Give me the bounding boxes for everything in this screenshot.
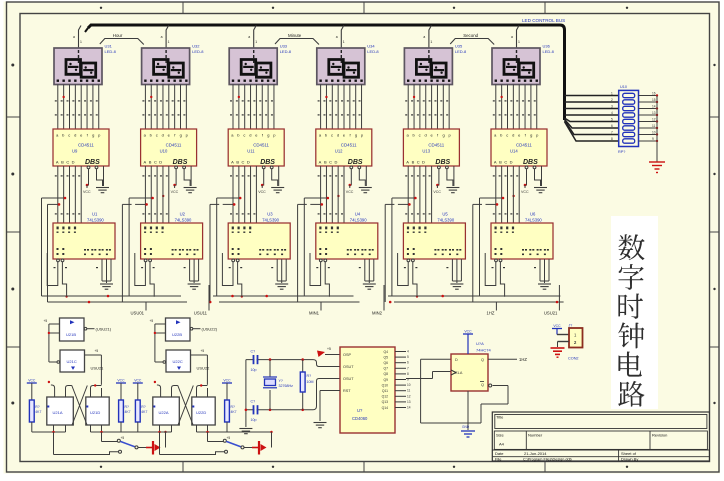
svg-text:g: g [355, 133, 357, 138]
svg-text:(USU22): (USU22) [202, 326, 218, 331]
svg-text:U31: U31 [105, 44, 113, 49]
svg-text:U34: U34 [367, 44, 375, 49]
svg-text:c: c [331, 133, 333, 138]
svg-text:LED-8: LED-8 [192, 49, 204, 54]
svg-text:6: 6 [611, 124, 613, 128]
svg-text:LED-8: LED-8 [280, 49, 292, 54]
svg-text:4: 4 [611, 111, 613, 115]
svg-text:U14: U14 [510, 149, 518, 154]
svg-text:Q10: Q10 [382, 383, 389, 387]
svg-text:Q6: Q6 [383, 361, 388, 365]
svg-text:4: 4 [407, 350, 409, 354]
svg-text:Size: Size [496, 433, 505, 438]
svg-text:D: D [422, 160, 425, 165]
svg-text:Q5: Q5 [383, 355, 388, 359]
svg-text:Q7: Q7 [383, 367, 388, 371]
svg-text:C?: C? [251, 400, 256, 404]
svg-text:U22A: U22A [159, 410, 169, 415]
svg-text:7: 7 [407, 366, 409, 370]
svg-text:C: C [66, 160, 69, 165]
svg-text:d: d [337, 133, 339, 138]
svg-text:OSP: OSP [343, 353, 351, 357]
svg-text:Q14: Q14 [382, 406, 389, 410]
svg-text:Revision: Revision [652, 433, 667, 438]
svg-text:CD4511: CD4511 [428, 143, 444, 148]
svg-text:A: A [319, 160, 322, 165]
svg-text:U21D: U21D [90, 410, 100, 415]
svg-text:Number: Number [528, 433, 543, 438]
svg-text:USU21: USU21 [544, 311, 558, 316]
svg-text:B: B [412, 160, 415, 165]
svg-text:B: B [324, 160, 327, 165]
svg-text:8: 8 [611, 137, 613, 141]
svg-text:DBS: DBS [85, 159, 100, 166]
svg-text:g: g [530, 133, 532, 138]
svg-text:U3: U3 [267, 212, 273, 217]
svg-text:d: d [74, 133, 76, 138]
svg-text:B: B [61, 160, 64, 165]
svg-text:14: 14 [407, 406, 411, 410]
svg-text:CD4511: CD4511 [78, 143, 94, 148]
svg-text:U33: U33 [280, 44, 288, 49]
svg-text:LED-8: LED-8 [367, 49, 379, 54]
svg-text:Q11: Q11 [382, 389, 388, 393]
svg-text:R?: R? [307, 374, 312, 378]
svg-text:OSUT: OSUT [343, 377, 354, 381]
svg-text:A: A [56, 160, 59, 165]
svg-text:U36: U36 [543, 44, 551, 49]
svg-text:U21C: U21C [67, 359, 77, 364]
svg-text:U22D: U22D [196, 410, 206, 415]
svg-text:U32: U32 [192, 44, 200, 49]
svg-text:Drawn By: Drawn By [621, 457, 638, 462]
svg-text:U10: U10 [620, 85, 627, 89]
svg-text:VCC: VCC [346, 190, 354, 194]
svg-text:11: 11 [407, 389, 411, 393]
svg-text:Q12: Q12 [382, 395, 389, 399]
svg-text:J?: J? [569, 324, 573, 328]
svg-text:1HZ: 1HZ [486, 311, 494, 316]
svg-text:OSUT: OSUT [343, 365, 354, 369]
svg-text:VCC: VCC [433, 190, 441, 194]
svg-text:74LS390: 74LS390 [350, 218, 367, 223]
svg-text:+5: +5 [150, 319, 154, 323]
svg-text:+5: +5 [44, 319, 48, 323]
svg-text:LED-8: LED-8 [455, 49, 467, 54]
svg-text:R?: R? [231, 405, 235, 409]
svg-text:3: 3 [611, 105, 613, 109]
svg-text:74LS390: 74LS390 [175, 218, 192, 223]
svg-text:D: D [334, 160, 337, 165]
svg-text:D: D [455, 358, 458, 362]
svg-text:Q8: Q8 [383, 372, 388, 376]
svg-text:4K7: 4K7 [35, 410, 41, 414]
svg-text:14: 14 [652, 105, 656, 109]
svg-text:U21A: U21A [53, 410, 63, 415]
svg-text:Second: Second [463, 33, 478, 38]
svg-text:MIN2: MIN2 [372, 311, 383, 316]
svg-text:+5: +5 [327, 347, 331, 351]
svg-text:CD4511: CD4511 [341, 143, 357, 148]
svg-text:7: 7 [611, 131, 613, 135]
svg-text:+5: +5 [201, 349, 205, 353]
svg-text:A: A [143, 160, 146, 165]
svg-text:g: g [92, 133, 94, 138]
svg-text:LED CONTROL BUS: LED CONTROL BUS [522, 18, 565, 23]
svg-text:+5: +5 [227, 436, 231, 440]
svg-text:(USU21): (USU21) [96, 326, 112, 331]
svg-text:USU11: USU11 [194, 311, 208, 316]
svg-text:C: C [329, 160, 332, 165]
svg-text:CD4511: CD4511 [516, 143, 532, 148]
svg-text:g: g [442, 133, 444, 138]
svg-text:a: a [248, 35, 250, 39]
svg-text:D: D [510, 160, 513, 165]
svg-text:1: 1 [430, 40, 432, 44]
svg-text:1: 1 [611, 92, 613, 96]
svg-text:1: 1 [343, 40, 345, 44]
svg-text:D: D [247, 160, 250, 165]
svg-text:4K7: 4K7 [125, 410, 131, 414]
svg-text:CD4511: CD4511 [166, 143, 182, 148]
svg-text:U22B: U22B [172, 332, 182, 337]
svg-text:d: d [512, 133, 514, 138]
svg-text:d: d [162, 133, 164, 138]
svg-text:Hour: Hour [113, 33, 123, 38]
svg-text:U5: U5 [442, 212, 448, 217]
svg-text:12: 12 [407, 394, 411, 398]
svg-text:4K7: 4K7 [141, 410, 147, 414]
svg-text:32768Hz: 32768Hz [279, 384, 294, 388]
svg-text:USU21: USU21 [91, 366, 105, 371]
svg-text:Title: Title [496, 415, 504, 420]
svg-text:Q13: Q13 [382, 400, 389, 404]
svg-text:VCC: VCC [258, 190, 266, 194]
svg-text:VCC: VCC [464, 330, 472, 334]
svg-text:C: C [242, 160, 245, 165]
svg-text:USU01: USU01 [131, 311, 145, 316]
svg-text:U11: U11 [247, 149, 255, 154]
svg-text:CON2: CON2 [568, 357, 579, 361]
svg-text:74HC74: 74HC74 [476, 348, 491, 353]
svg-text:CD4511: CD4511 [253, 143, 269, 148]
svg-text:2: 2 [611, 98, 613, 102]
svg-text:74LS390: 74LS390 [262, 218, 279, 223]
svg-text:a: a [73, 35, 75, 39]
svg-text:USU22: USU22 [197, 366, 211, 371]
svg-text:10M: 10M [307, 380, 314, 384]
svg-text:10: 10 [407, 383, 411, 387]
svg-text:13: 13 [407, 400, 411, 404]
svg-text:U?A: U?A [476, 341, 484, 346]
svg-text:1: 1 [255, 40, 257, 44]
svg-text:GND: GND [462, 425, 470, 429]
svg-text:B: B [149, 160, 152, 165]
svg-text:1HZ: 1HZ [519, 357, 527, 362]
svg-text:10: 10 [652, 131, 656, 135]
svg-text:6: 6 [407, 361, 409, 365]
svg-text:9: 9 [652, 137, 654, 141]
svg-text:C:\Program Files\Design.ddb: C:\Program Files\Design.ddb [523, 458, 572, 462]
svg-text:A: A [231, 160, 234, 165]
svg-text:12: 12 [652, 118, 656, 122]
svg-text:DBS: DBS [523, 159, 538, 166]
svg-text:Date: Date [495, 451, 504, 456]
svg-text:a: a [161, 35, 163, 39]
svg-text:13: 13 [652, 111, 656, 115]
svg-text:A: A [494, 160, 497, 165]
svg-text:10p: 10p [251, 418, 257, 422]
svg-text:R?: R? [125, 405, 129, 409]
svg-text:VCC: VCC [171, 190, 179, 194]
svg-text:MIN1: MIN1 [309, 311, 320, 316]
svg-text:c: c [506, 133, 508, 138]
svg-text:VCC: VCC [134, 379, 142, 383]
svg-text:A4: A4 [499, 442, 505, 447]
svg-text:74LS390: 74LS390 [87, 218, 104, 223]
svg-text:Q9: Q9 [383, 378, 388, 382]
svg-text:5: 5 [611, 118, 613, 122]
svg-text:B: B [236, 160, 239, 165]
svg-text:+5: +5 [121, 436, 125, 440]
svg-text:R?: R? [35, 405, 39, 409]
svg-text:8: 8 [407, 372, 409, 376]
svg-text:U2: U2 [180, 212, 186, 217]
svg-text:RP?: RP? [618, 150, 625, 154]
svg-text:DBS: DBS [173, 159, 188, 166]
svg-text:U13: U13 [422, 149, 430, 154]
svg-text:U35: U35 [455, 44, 463, 49]
svg-text:15: 15 [652, 98, 656, 102]
svg-text:U4: U4 [355, 212, 361, 217]
svg-text:21-Jun-2014: 21-Jun-2014 [524, 451, 547, 456]
svg-text:C: C [504, 160, 507, 165]
svg-text:File: File [495, 457, 502, 462]
svg-text:B: B [499, 160, 502, 165]
svg-text:4K7: 4K7 [231, 410, 237, 414]
svg-text:Q: Q [481, 383, 484, 387]
svg-text:a: a [423, 35, 425, 39]
svg-text:Y?: Y? [279, 379, 283, 383]
svg-text:1: 1 [168, 40, 170, 44]
svg-text:Minute: Minute [288, 33, 302, 38]
svg-text:D: D [159, 160, 162, 165]
svg-text:RST: RST [343, 389, 351, 393]
svg-text:c: c [419, 133, 421, 138]
svg-text:C: C [417, 160, 420, 165]
svg-text:Sheet of: Sheet of [621, 451, 637, 456]
svg-text:VCC: VCC [521, 190, 529, 194]
svg-text:a: a [511, 35, 513, 39]
svg-text:VCC: VCC [83, 190, 91, 194]
svg-text:D: D [72, 160, 75, 165]
svg-text:11: 11 [652, 124, 656, 128]
svg-text:VCC: VCC [28, 379, 36, 383]
svg-text:C?: C? [251, 350, 256, 354]
svg-text:g: g [267, 133, 269, 138]
svg-text:Q4: Q4 [383, 350, 388, 354]
svg-text:CLA: CLA [455, 371, 463, 375]
svg-text:U1: U1 [92, 212, 98, 217]
svg-text:U10: U10 [160, 149, 168, 154]
svg-text:1: 1 [80, 40, 82, 44]
svg-text:U21B: U21B [66, 332, 76, 337]
svg-text:R?: R? [141, 405, 145, 409]
svg-text:DBS: DBS [435, 159, 450, 166]
svg-text:d: d [249, 133, 251, 138]
svg-text:Q: Q [481, 358, 484, 362]
svg-text:C: C [154, 160, 157, 165]
svg-text:1: 1 [518, 40, 520, 44]
svg-text:U6: U6 [530, 212, 536, 217]
svg-text:d: d [424, 133, 426, 138]
svg-text:74LS390: 74LS390 [437, 218, 454, 223]
svg-text:U9: U9 [72, 149, 78, 154]
svg-text:a: a [336, 35, 338, 39]
svg-text:U22C: U22C [173, 359, 183, 364]
svg-text:16: 16 [652, 92, 656, 96]
svg-text:c: c [156, 133, 158, 138]
svg-text:U?: U? [357, 408, 363, 413]
svg-text:c: c [243, 133, 245, 138]
svg-text:DBS: DBS [260, 159, 275, 166]
svg-text:10p: 10p [251, 368, 257, 372]
svg-text:DBS: DBS [348, 159, 363, 166]
svg-text:74LS390: 74LS390 [525, 218, 542, 223]
svg-text:VCC: VCC [553, 324, 561, 328]
svg-text:LED-8: LED-8 [543, 49, 555, 54]
svg-text:+5: +5 [95, 349, 99, 353]
svg-text:c: c [68, 133, 70, 138]
svg-text:5: 5 [407, 355, 409, 359]
svg-text:VCC: VCC [223, 379, 231, 383]
svg-text:VCC: VCC [117, 379, 125, 383]
svg-text:U12: U12 [335, 149, 343, 154]
svg-text:LED-8: LED-8 [105, 49, 117, 54]
svg-text:A: A [406, 160, 409, 165]
svg-text:CD4060: CD4060 [352, 416, 368, 421]
svg-text:g: g [180, 133, 182, 138]
